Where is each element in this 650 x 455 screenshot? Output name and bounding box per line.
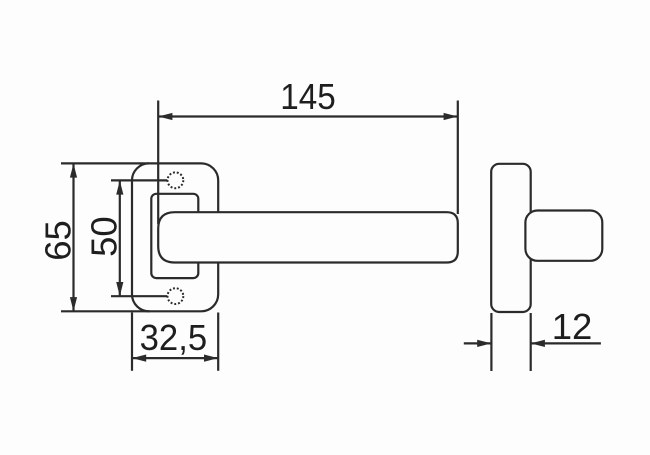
- arrowhead left of 145: [158, 113, 172, 120]
- arrowhead bottom of 65: [70, 297, 77, 311]
- dimension line 32,5: [132, 357, 218, 359]
- handle lever (front view): [158, 212, 458, 262]
- arrowhead bottom of 50: [116, 282, 123, 296]
- arrowhead right of 32,5: [204, 355, 218, 362]
- svg-text:12: 12: [552, 306, 593, 347]
- dimension line 65: [72, 163, 74, 311]
- extension line bottom of dimension 50: [111, 295, 167, 297]
- side view handle cross-section: [525, 211, 602, 261]
- extension line right of dimension 32,5: [217, 313, 219, 371]
- arrowhead left of 32,5: [132, 355, 146, 362]
- dimension line 145: [158, 115, 458, 117]
- rosette plate (front view): [132, 163, 218, 311]
- extension line left of dimension 32,5: [131, 313, 133, 371]
- extension line right of dimension 12: [530, 313, 532, 371]
- dimension line 50: [119, 180, 121, 296]
- extension line left of dimension 145: [157, 101, 159, 225]
- arrowhead right of 12 (pointing left): [531, 340, 545, 347]
- svg-text:50: 50: [84, 216, 125, 257]
- dimension line 12 left segment: [464, 342, 492, 344]
- extension line top of dimension 65: [61, 162, 149, 164]
- arrowhead left of 12 (pointing right): [477, 340, 491, 347]
- extension line right of dimension 145: [457, 101, 459, 215]
- extension line top of dimension 50: [111, 179, 167, 181]
- svg-text:32,5: 32,5: [140, 317, 208, 358]
- dimension line 12 right segment: [531, 342, 601, 344]
- arrowhead right of 145: [444, 113, 458, 120]
- svg-text:65: 65: [38, 220, 79, 261]
- inner rounded square of rosette: [151, 194, 198, 278]
- arrowhead top of 50: [116, 181, 123, 195]
- svg-text:145: 145: [280, 76, 336, 117]
- arrowhead top of 65: [70, 164, 77, 178]
- extension line bottom of dimension 65: [61, 310, 150, 312]
- side view plate: [491, 164, 531, 312]
- screw hole top (dotted): [168, 172, 184, 188]
- extension line left of dimension 12: [490, 313, 492, 371]
- screw hole bottom (dotted): [168, 288, 184, 304]
